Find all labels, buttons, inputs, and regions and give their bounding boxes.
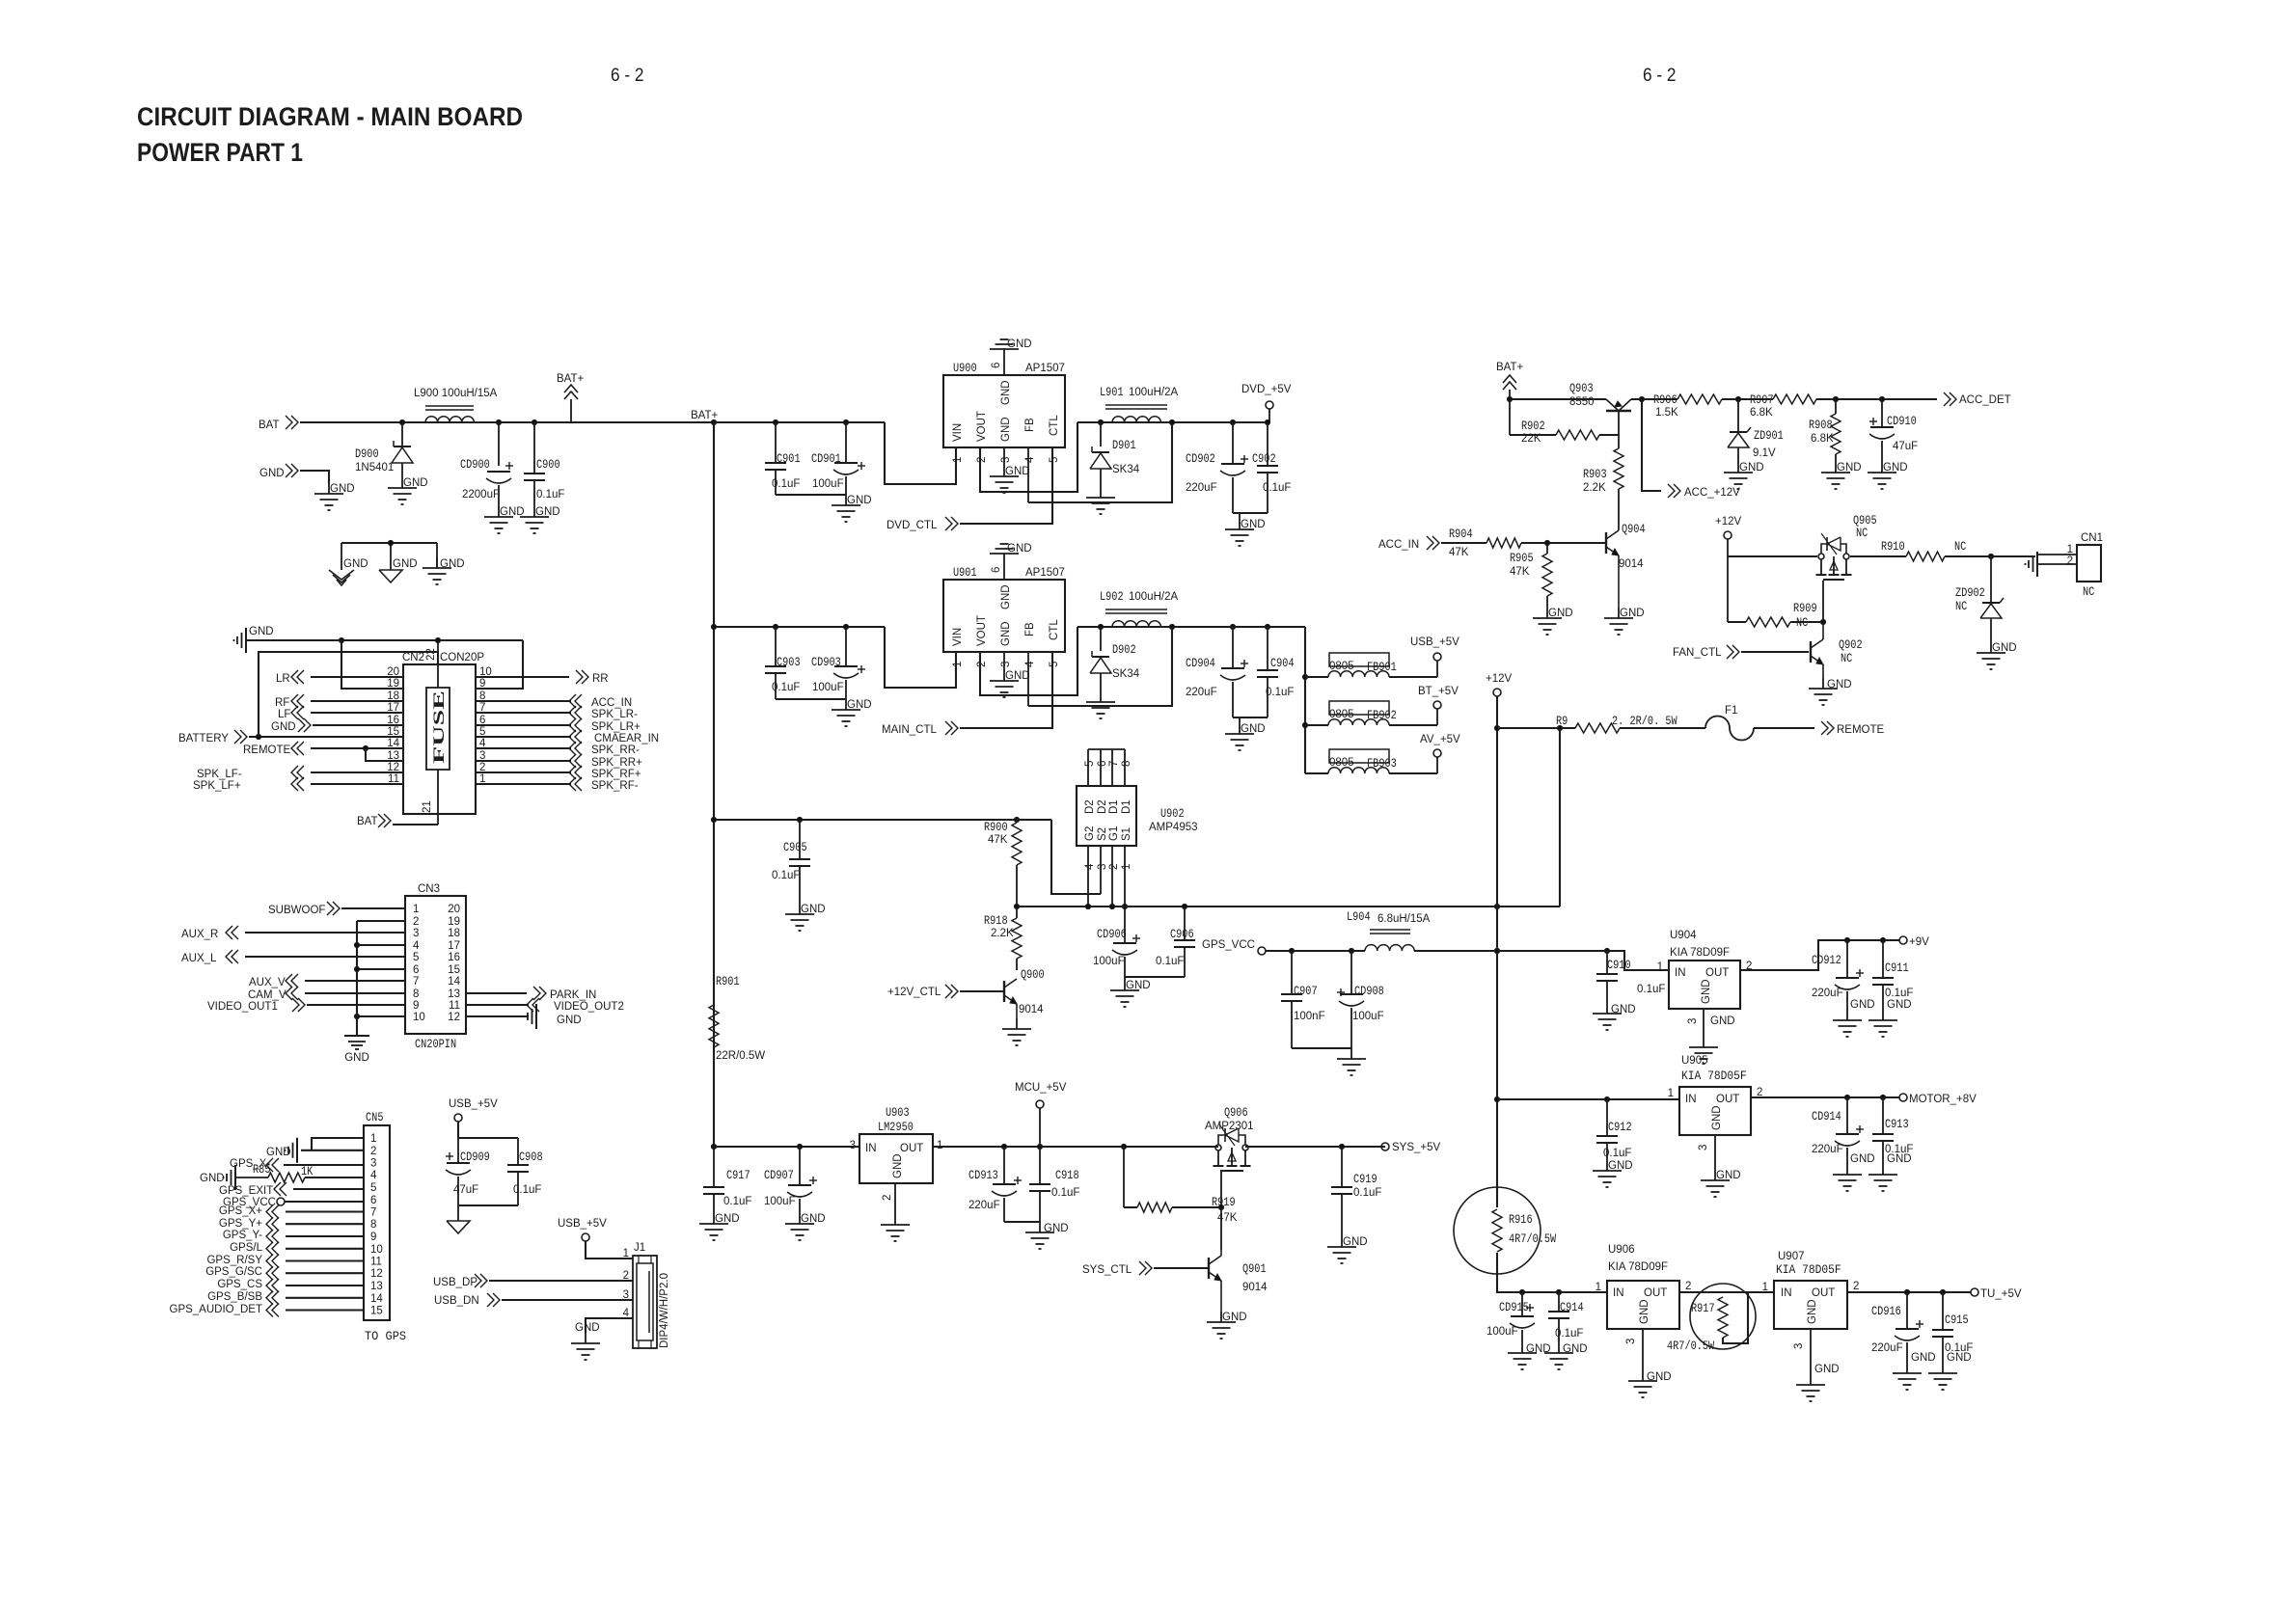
- wire row2 caps bottom: [776, 698, 846, 700]
- svg-text:BAT: BAT: [357, 816, 378, 827]
- resistor R918: [984, 907, 1022, 970]
- zener ZD902: [1955, 556, 2004, 642]
- svg-text:CD916: CD916: [1871, 1305, 1901, 1318]
- wire R904 to Q904: [1521, 540, 1606, 545]
- svg-text:USB_+5V: USB_+5V: [449, 1098, 498, 1110]
- svg-text:100uF: 100uF: [1093, 956, 1125, 967]
- capacitor C919: [1331, 1147, 1381, 1236]
- ground under CD900: [484, 506, 525, 533]
- svg-text:CAM_V: CAM_V: [248, 989, 286, 1001]
- ground under C918: [1025, 1222, 1069, 1249]
- svg-text:0805: 0805: [1329, 757, 1354, 769]
- svg-text:4R7/0.5W: 4R7/0.5W: [1667, 1340, 1715, 1353]
- wire U906 out to U907: [1679, 1291, 1774, 1293]
- svg-text:GND: GND: [1814, 1364, 1840, 1375]
- svg-text:BAT+: BAT+: [1496, 362, 1524, 373]
- svg-text:1N5401: 1N5401: [355, 462, 394, 474]
- svg-text:100uF: 100uF: [1486, 1326, 1518, 1338]
- svg-text:IN: IN: [1613, 1287, 1624, 1299]
- svg-text:R917: R917: [1691, 1302, 1715, 1315]
- svg-text:GND: GND: [575, 1322, 600, 1334]
- svg-text:GPS_B/SB: GPS_B/SB: [207, 1291, 262, 1303]
- wire FB U900: [1028, 420, 1175, 502]
- wire C906 to CD906 gnd: [1125, 976, 1185, 978]
- transistor Q904: [1606, 523, 1646, 608]
- wire SPK_LF+ to pin11: [311, 783, 403, 785]
- svg-text:14: 14: [370, 1293, 383, 1305]
- svg-text:3: 3: [1000, 662, 1012, 667]
- junction D900: [399, 420, 404, 424]
- node AUX_L: [181, 950, 238, 964]
- svg-text:U904: U904: [1670, 930, 1697, 941]
- svg-text:GPS_VCC: GPS_VCC: [1202, 939, 1255, 951]
- svg-text:3: 3: [370, 1158, 376, 1170]
- wire +12V to U905: [1497, 1096, 1679, 1101]
- ferrite bead FB902: [1328, 701, 1397, 725]
- svg-text:100uF: 100uF: [764, 1196, 796, 1207]
- svg-text:100uF: 100uF: [812, 478, 844, 490]
- svg-text:R902: R902: [1521, 420, 1545, 433]
- svg-text:100nF: 100nF: [1294, 1011, 1325, 1022]
- wire GPS_Y+ pin8: [286, 1223, 364, 1225]
- svg-text:AUX_L: AUX_L: [181, 953, 217, 964]
- resistor R9: [1556, 715, 1677, 733]
- transistor Q906 pmos: [1205, 1106, 1254, 1171]
- capacitor C904: [1257, 627, 1295, 717]
- svg-text:PARK_IN: PARK_IN: [550, 989, 596, 1001]
- svg-text:+12V_CTL: +12V_CTL: [887, 987, 941, 998]
- svg-text:1: 1: [2067, 544, 2073, 555]
- node SYS_+5V: [1381, 1142, 1441, 1153]
- node GPS/L: [230, 1242, 279, 1256]
- capacitor C914: [1548, 1292, 1584, 1342]
- svg-text:0.1uF: 0.1uF: [513, 1184, 541, 1196]
- capacitor CD903: [811, 627, 865, 699]
- svg-text:GND: GND: [440, 558, 465, 570]
- wire USB_+5V to J1 pin1: [586, 1241, 633, 1259]
- wire GPS_X+ pin7: [286, 1210, 364, 1212]
- svg-text:9014: 9014: [1242, 1282, 1268, 1293]
- svg-text:1: 1: [1121, 864, 1132, 870]
- connector CN1: [2067, 532, 2103, 599]
- svg-text:9014: 9014: [1019, 1004, 1044, 1015]
- svg-text:GND: GND: [1007, 338, 1032, 350]
- svg-text:7: 7: [1108, 761, 1120, 767]
- wire GPS_G/SC pin12: [286, 1272, 364, 1274]
- svg-text:GND: GND: [1005, 466, 1030, 477]
- svg-text:SPK_RR+: SPK_RR+: [591, 757, 642, 769]
- svg-text:NC: NC: [1796, 616, 1808, 630]
- capacitor CD907: [764, 1147, 817, 1213]
- resistor R910: [1881, 540, 1966, 561]
- svg-text:GND: GND: [557, 1015, 582, 1026]
- connector CN3 box: [405, 883, 466, 1034]
- pin labels U901: [952, 584, 1060, 646]
- capacitor CD901: [811, 422, 865, 495]
- svg-text:2.2K: 2.2K: [1583, 482, 1606, 494]
- svg-text:GND: GND: [343, 558, 368, 570]
- wire CN3 gnd bus: [354, 921, 405, 1036]
- capacitor CD902: [1186, 420, 1248, 513]
- svg-text:10: 10: [413, 1012, 425, 1023]
- node SPK_LF-: [197, 766, 304, 780]
- svg-text:9014: 9014: [1619, 558, 1644, 570]
- svg-text:U901: U901: [953, 566, 977, 580]
- ground under Q900: [1002, 1018, 1031, 1045]
- svg-text:12: 12: [448, 1012, 460, 1023]
- wire LF to pin17: [311, 712, 403, 714]
- node PARK_IN: [533, 987, 596, 1001]
- ground under U904: [1689, 1015, 1735, 1064]
- wire C907 CD908 bottom: [1292, 1047, 1351, 1049]
- svg-text:16: 16: [448, 952, 460, 963]
- wire U903 gnd pin2: [894, 1183, 896, 1214]
- wire pin12 to GND flag: [466, 1015, 529, 1017]
- ground under Q901: [1207, 1312, 1247, 1339]
- svg-text:LF: LF: [278, 709, 290, 720]
- svg-text:GND: GND: [1837, 462, 1862, 474]
- svg-text:NC: NC: [2083, 585, 2094, 599]
- node BAT+ label mid: [691, 410, 719, 421]
- svg-text:3: 3: [1793, 1343, 1805, 1349]
- svg-text:GND: GND: [1887, 1153, 1912, 1165]
- svg-text:2: 2: [976, 457, 988, 463]
- wire GPS_X- pin3: [284, 1164, 364, 1166]
- node GPS_X-: [230, 1158, 279, 1172]
- resistor R85: [235, 1163, 314, 1182]
- node GPS_CS: [217, 1279, 279, 1292]
- svg-text:GPS/L: GPS/L: [230, 1242, 262, 1254]
- ground under U903: [881, 1214, 910, 1241]
- svg-text:C914: C914: [1560, 1301, 1584, 1314]
- node +9V: [1899, 936, 1929, 948]
- wire REMOTE to pin13: [366, 748, 403, 761]
- svg-text:SYS_CTL: SYS_CTL: [1082, 1264, 1132, 1276]
- ic U900 AP1507: [943, 362, 1065, 447]
- svg-text:GND: GND: [1343, 1236, 1368, 1248]
- capacitor C906: [1156, 907, 1195, 977]
- wire BATTERY to pin22: [259, 652, 438, 737]
- capacitor CD914: [1812, 1097, 1864, 1164]
- ground under CN3: [344, 1036, 369, 1064]
- node REMOTE: [1821, 721, 1885, 736]
- node GND pin16: [271, 718, 311, 733]
- node GPS_Y-: [223, 1230, 279, 1243]
- svg-text:GND: GND: [1639, 1299, 1650, 1324]
- ground under ZD902: [1977, 642, 2017, 669]
- svg-text:8550: 8550: [1569, 396, 1595, 408]
- wire R906 to R907: [1722, 396, 1773, 401]
- svg-text:0.1uF: 0.1uF: [1156, 956, 1184, 967]
- svg-text:CN2: CN2: [402, 652, 424, 663]
- svg-text:2: 2: [1685, 1281, 1691, 1292]
- ground under C911: [1868, 999, 1912, 1037]
- node SPK_RF-: [569, 777, 639, 792]
- ground under CD915: [1508, 1342, 1551, 1369]
- wire FB U901: [1028, 627, 1172, 706]
- svg-text:1: 1: [952, 662, 964, 667]
- ferrite bead FB903: [1328, 749, 1397, 773]
- svg-text:F1: F1: [1725, 705, 1737, 717]
- svg-text:GND: GND: [1005, 670, 1030, 682]
- ground under C910: [1593, 1003, 1636, 1030]
- wire pin5 to CMAEAR_IN: [476, 736, 571, 738]
- wire CD913 C918 bottom: [1004, 1221, 1040, 1223]
- svg-text:20: 20: [448, 904, 460, 915]
- inductor L900: [414, 388, 498, 422]
- svg-text:R903: R903: [1583, 468, 1607, 481]
- svg-text:0.1uF: 0.1uF: [1266, 687, 1294, 698]
- svg-text:0805: 0805: [1329, 709, 1354, 720]
- svg-text:15: 15: [370, 1306, 383, 1317]
- ic U902 AMP4953: [1077, 786, 1198, 846]
- svg-text:GND: GND: [1007, 543, 1032, 555]
- ground under C914: [1544, 1342, 1588, 1369]
- wire R919 pullup: [1124, 1147, 1137, 1207]
- svg-text:FB903: FB903: [1367, 757, 1397, 771]
- wire +12V to Q905: [1728, 539, 1817, 556]
- ground under C905: [785, 904, 826, 931]
- svg-text:AV_+5V: AV_+5V: [1420, 734, 1460, 745]
- svg-text:10: 10: [370, 1244, 383, 1256]
- svg-text:OUT: OUT: [900, 1143, 923, 1154]
- svg-text:MCU_+5V: MCU_+5V: [1015, 1082, 1067, 1094]
- svg-text:C901: C901: [777, 452, 801, 466]
- svg-text:6: 6: [413, 964, 419, 976]
- svg-text:0.1uF: 0.1uF: [1603, 1148, 1631, 1159]
- wire BAT+ to Q903 emitter: [1507, 396, 1606, 401]
- pin numbers U902: [1084, 761, 1132, 870]
- svg-text:CD907: CD907: [764, 1169, 794, 1182]
- svg-text:BAT: BAT: [259, 420, 280, 431]
- svg-text:CD913: CD913: [968, 1169, 998, 1182]
- svg-text:C912: C912: [1608, 1121, 1632, 1134]
- svg-text:VOUT: VOUT: [976, 411, 988, 442]
- wire R910 to CN1: [1945, 554, 2035, 558]
- svg-text:U906: U906: [1608, 1244, 1635, 1256]
- wire U902 G2 stub: [1087, 846, 1089, 907]
- svg-text:GND: GND: [801, 904, 826, 915]
- svg-text:GND: GND: [1807, 1299, 1818, 1324]
- node GPS_EXIT: [219, 1182, 286, 1197]
- wire CN5 pin1 gnd: [312, 1138, 364, 1150]
- svg-text:SPK_RF+: SPK_RF+: [591, 769, 641, 780]
- pin numbers U901: [952, 567, 1060, 667]
- svg-text:C919: C919: [1353, 1173, 1377, 1186]
- svg-text:47uF: 47uF: [1893, 441, 1918, 452]
- svg-text:2: 2: [882, 1195, 893, 1201]
- wire BATTERY to pin15: [249, 734, 403, 739]
- svg-text:DIP4/W/H/P2.0: DIP4/W/H/P2.0: [659, 1273, 670, 1348]
- wire BAT+ down to R902: [1510, 399, 1556, 435]
- svg-text:CD901: CD901: [811, 452, 841, 466]
- svg-text:IN: IN: [1675, 967, 1686, 979]
- node REMOTE: [243, 742, 304, 756]
- wire GND net CN2: [246, 637, 523, 689]
- svg-text:U903: U903: [886, 1106, 910, 1120]
- svg-text:FB: FB: [1024, 622, 1036, 636]
- svg-text:VOUT: VOUT: [976, 615, 988, 646]
- svg-text:L900 100uH/15A: L900 100uH/15A: [414, 388, 498, 399]
- wire pin10 to RR: [476, 676, 569, 678]
- ic U901 AP1507: [943, 566, 1065, 652]
- pin numbers J1: [623, 1248, 630, 1319]
- svg-text:GND: GND: [1000, 621, 1012, 646]
- svg-text:220uF: 220uF: [1186, 482, 1217, 494]
- ground under CD901: [832, 495, 872, 522]
- svg-text:1: 1: [413, 904, 419, 915]
- svg-text:4: 4: [1024, 456, 1036, 463]
- wire U904 out to +9V: [1740, 937, 1899, 970]
- svg-text:8: 8: [1121, 761, 1132, 767]
- svg-text:8: 8: [370, 1219, 376, 1231]
- node CMAEAR_IN: [569, 730, 659, 744]
- svg-text:220uF: 220uF: [1871, 1342, 1903, 1354]
- capacitor CD915: [1486, 1292, 1535, 1342]
- pin 21 stub CN2: [393, 770, 438, 825]
- node BT_+5V out: [1418, 686, 1459, 709]
- wire 12V loop: [1559, 728, 1561, 907]
- node GPS_Y+: [219, 1217, 279, 1231]
- node USB_+5V upper: [449, 1098, 498, 1122]
- svg-text:9.1V: 9.1V: [1753, 447, 1776, 459]
- wire BAT+ to row1 caps: [714, 420, 885, 424]
- resistor R908: [1809, 399, 1841, 462]
- svg-text:FB: FB: [1024, 418, 1036, 432]
- svg-text:G1: G1: [1108, 826, 1120, 841]
- svg-text:R906: R906: [1653, 393, 1677, 407]
- svg-text:GND: GND: [1241, 519, 1266, 530]
- svg-text:GND: GND: [1000, 584, 1012, 609]
- capacitor C911: [1872, 940, 1913, 1010]
- node GPS_VCC cn5: [223, 1197, 285, 1208]
- wire BAT+ branch row2: [711, 624, 885, 629]
- capacitor CD904: [1186, 627, 1248, 717]
- wire U905 gnd pin3: [1714, 1135, 1716, 1170]
- node DVD_+5V: [1241, 384, 1292, 425]
- svg-text:BATTERY: BATTERY: [178, 733, 229, 744]
- svg-text:0.1uF: 0.1uF: [772, 478, 800, 490]
- svg-text:4R7/0.5W: 4R7/0.5W: [1509, 1232, 1557, 1246]
- node BAT out CN2: [357, 814, 391, 827]
- svg-text:CD909: CD909: [460, 1150, 490, 1164]
- svg-text:GPS_Y+: GPS_Y+: [219, 1218, 262, 1230]
- svg-text:IN: IN: [1685, 1094, 1697, 1105]
- svg-text:+9V: +9V: [1909, 936, 1929, 948]
- capacitor C901: [765, 422, 801, 495]
- svg-text:C908: C908: [519, 1150, 543, 1164]
- wire USB_+5V cap loop: [458, 1122, 518, 1165]
- svg-text:GND: GND: [1126, 980, 1151, 991]
- svg-text:GPS_AUDIO_DET: GPS_AUDIO_DET: [170, 1304, 263, 1315]
- node LR: [276, 670, 304, 685]
- svg-text:GND: GND: [535, 506, 560, 518]
- svg-text:USB_+5V: USB_+5V: [1410, 636, 1459, 648]
- ground under D900: [388, 477, 428, 504]
- svg-text:GND: GND: [1647, 1371, 1672, 1383]
- node +12V small: [1715, 516, 1742, 539]
- wire AUX_R to pin3: [245, 932, 405, 934]
- ground under ZD901: [1724, 462, 1764, 489]
- node SPK_RR+: [569, 754, 642, 769]
- wire U902 S1 stub: [1122, 846, 1127, 943]
- node RR: [576, 670, 609, 685]
- wire U904 gnd pin3: [1703, 1009, 1705, 1037]
- wire SYS input row: [711, 1144, 859, 1149]
- node SUBWOOF: [268, 902, 340, 916]
- ground under R908: [1821, 462, 1862, 489]
- page number left: [611, 66, 644, 86]
- capacitor C908: [507, 1150, 543, 1205]
- node +12V_CTL: [887, 985, 958, 998]
- svg-text:13: 13: [370, 1281, 383, 1292]
- pin numbers CN2 right: [479, 666, 492, 785]
- wire FB903 row: [1305, 757, 1437, 773]
- wire GPS/L pin10: [286, 1248, 364, 1250]
- svg-text:4: 4: [413, 940, 420, 952]
- pin numbers CN2 left: [387, 666, 399, 785]
- svg-text:CN3: CN3: [418, 883, 440, 895]
- svg-text:6: 6: [370, 1195, 376, 1206]
- inductor L904: [1347, 910, 1431, 951]
- svg-text:C913: C913: [1885, 1118, 1909, 1131]
- svg-text:0.1uF: 0.1uF: [536, 489, 564, 501]
- wire SYS output row: [933, 1144, 1218, 1149]
- svg-text:GND: GND: [200, 1173, 225, 1184]
- capacitor CD908: [1337, 951, 1384, 1048]
- inductor L902: [1100, 590, 1178, 627]
- pin numbers CN3 left: [413, 904, 425, 1023]
- svg-text:22: 22: [425, 648, 437, 661]
- svg-text:1.5K: 1.5K: [1655, 407, 1678, 419]
- capacitor CD900: [460, 422, 513, 506]
- svg-text:U907: U907: [1778, 1251, 1805, 1262]
- pin labels U902 top: [1084, 799, 1132, 814]
- svg-text:220uF: 220uF: [1812, 988, 1843, 999]
- capacitor C917: [703, 1147, 751, 1213]
- svg-text:LM2950: LM2950: [878, 1121, 914, 1134]
- svg-text:47K: 47K: [1510, 566, 1530, 578]
- capacitor C918: [1029, 1169, 1079, 1222]
- svg-text:GND: GND: [1000, 380, 1012, 405]
- node MAIN_CTL: [882, 721, 958, 736]
- ground GND input: [314, 483, 355, 510]
- svg-text:CD910: CD910: [1887, 415, 1917, 428]
- svg-text:2: 2: [623, 1270, 629, 1282]
- wire pin11 to VIDEO_OUT2: [466, 1004, 529, 1006]
- svg-text:AP1507: AP1507: [1025, 363, 1065, 374]
- svg-text:3: 3: [850, 1140, 856, 1151]
- svg-text:U900: U900: [953, 362, 977, 375]
- capacitor CD910: [1869, 399, 1918, 462]
- ground flag CN2: [234, 626, 274, 653]
- svg-text:ACC_+12V: ACC_+12V: [1684, 487, 1740, 499]
- wire pin7 to SPK_LR-: [476, 712, 571, 714]
- svg-text:2: 2: [1853, 1281, 1859, 1292]
- svg-text:VIN: VIN: [952, 423, 964, 442]
- svg-text:100uF: 100uF: [812, 682, 844, 693]
- pin 6 gnd U900: [990, 338, 1032, 375]
- svg-text:4: 4: [1084, 863, 1096, 870]
- svg-text:6 - 2: 6 - 2: [611, 66, 644, 86]
- svg-text:Q901: Q901: [1242, 1262, 1267, 1276]
- node SYS_CTL: [1082, 1261, 1152, 1276]
- node SPK_LR-: [569, 706, 638, 720]
- wire SUBWOOF to pin1: [341, 907, 405, 909]
- svg-text:C910: C910: [1607, 959, 1631, 972]
- svg-text:1: 1: [370, 1133, 376, 1145]
- wire U906 gnd pin3: [1642, 1329, 1644, 1370]
